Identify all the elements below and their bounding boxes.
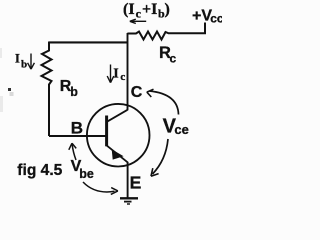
current arrow Ic bbox=[110, 65, 112, 83]
svg-text:B: B bbox=[71, 119, 83, 138]
wire: emitter vertical down to ground bbox=[127, 162, 129, 198]
svg-text:c: c bbox=[120, 71, 125, 83]
arc: Vbe curved arrow toward emitter/ground bbox=[83, 182, 115, 192]
current arrow (Ic+Ib) pointing left bbox=[132, 20, 146, 22]
svg-text:I: I bbox=[15, 52, 20, 66]
stray ink dot bbox=[8, 88, 11, 91]
arc: Vce upper curved arrow toward C bbox=[150, 91, 179, 115]
transistor Q1 collector lead bbox=[107, 110, 128, 122]
svg-text:+I: +I bbox=[142, 1, 157, 18]
wire: base horizontal from Rb bottom corner to transistor base bar bbox=[49, 135, 107, 137]
svg-text:c: c bbox=[136, 7, 142, 21]
transistor Q1 emitter lead with NPN arrowhead bbox=[107, 146, 128, 163]
svg-text:(I: (I bbox=[123, 1, 135, 18]
wire: collector vertical up to Rc junction bbox=[127, 33, 129, 110]
svg-text:c: c bbox=[170, 52, 177, 66]
ground symbol bbox=[120, 197, 138, 199]
arc: Vce lower curved arrow toward E bbox=[153, 139, 169, 174]
resistor Rc (horizontal zigzag, lead to +Vcc tick) bbox=[127, 23, 205, 40]
svg-text:I: I bbox=[113, 65, 118, 80]
arrow: Vbe up arrow toward base wire bbox=[72, 145, 76, 161]
wire: top horizontal from Rb branch to collector junction bbox=[49, 41, 128, 43]
svg-text:b: b bbox=[70, 85, 78, 99]
svg-text:fig 4.5: fig 4.5 bbox=[17, 162, 62, 179]
svg-text:cc: cc bbox=[210, 12, 222, 26]
svg-text:be: be bbox=[79, 167, 94, 181]
svg-text:C: C bbox=[131, 84, 143, 101]
resistor Rb (zigzag with vertical leads) bbox=[42, 42, 52, 137]
transistor Q1 (NPN) circle bbox=[87, 104, 150, 167]
svg-text:E: E bbox=[130, 172, 142, 192]
current arrow Ib bbox=[30, 54, 32, 69]
svg-text:ce: ce bbox=[174, 122, 188, 137]
transistor Q1 base bar bbox=[105, 116, 108, 147]
svg-text:b: b bbox=[21, 59, 27, 71]
svg-text:): ) bbox=[165, 1, 170, 18]
